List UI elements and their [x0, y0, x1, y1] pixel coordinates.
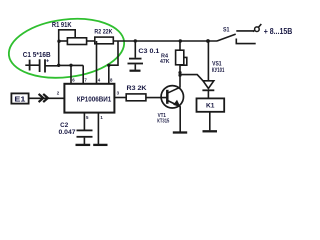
svg-text:+ 8...15В: + 8...15В	[264, 26, 293, 36]
svg-text:E1: E1	[14, 95, 25, 104]
svg-text:0.047: 0.047	[59, 129, 77, 136]
svg-text:+: +	[46, 58, 49, 64]
svg-text:КР1006ВИ1: КР1006ВИ1	[77, 95, 112, 104]
svg-text:КУ101: КУ101	[212, 68, 225, 74]
svg-text:S1: S1	[223, 26, 230, 33]
svg-text:C2: C2	[60, 122, 69, 129]
svg-text:R2 22K: R2 22K	[94, 29, 112, 36]
svg-text:VS1: VS1	[212, 62, 222, 68]
svg-text:R1 91K: R1 91K	[52, 22, 72, 29]
svg-text:47K: 47K	[160, 59, 170, 65]
svg-text:R3 2K: R3 2K	[127, 85, 147, 92]
svg-text:C3 0.1: C3 0.1	[138, 48, 159, 55]
svg-text:K1: K1	[206, 103, 215, 110]
svg-text:КТ315: КТ315	[157, 119, 170, 125]
